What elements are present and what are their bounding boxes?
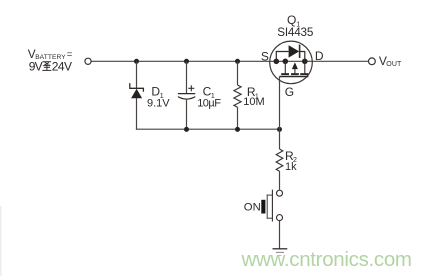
wire D1 branch lower xyxy=(136,98,138,130)
glyph 至 (to) xyxy=(42,62,51,71)
label R2 xyxy=(285,149,297,164)
svg-text:ON: ON xyxy=(244,201,261,213)
svg-text:24V: 24V xyxy=(52,60,72,74)
resistor R1 xyxy=(234,85,241,107)
terminal battery input xyxy=(85,58,91,64)
switch top contact xyxy=(277,190,283,196)
transistor Q1 body diode xyxy=(276,45,305,62)
transistor Q1 channel bars xyxy=(281,73,308,75)
ground xyxy=(273,249,288,256)
node top D1 xyxy=(134,59,139,64)
wire switch to ground xyxy=(279,221,281,249)
svg-text:9V: 9V xyxy=(29,60,43,74)
svg-text:Q: Q xyxy=(287,13,296,27)
switch button cap xyxy=(261,200,265,214)
svg-text:9.1V: 9.1V xyxy=(147,97,170,109)
label Vout xyxy=(379,54,402,68)
node top R1 xyxy=(235,59,240,64)
switch contact bar xyxy=(271,190,273,222)
scan artifact left edge xyxy=(0,206,2,276)
switch actuator top link xyxy=(267,194,273,196)
transistor Q1 source node xyxy=(274,59,280,65)
transistor Q1 body arrow xyxy=(292,62,298,69)
wire top rail xyxy=(91,60,368,62)
watermark www.cntronics.com xyxy=(241,248,413,271)
svg-text:G: G xyxy=(285,85,294,99)
wire gate down xyxy=(279,76,281,149)
transistor Q1 body node xyxy=(283,59,289,65)
label 9V to 24V xyxy=(29,60,72,74)
wire R1 branch lower xyxy=(237,107,239,130)
label Q1 xyxy=(287,13,300,28)
capacitor C1 plus sign xyxy=(188,85,194,91)
svg-text:1k: 1k xyxy=(285,161,297,173)
svg-text:SI4435: SI4435 xyxy=(277,26,314,39)
switch actuator bottom link xyxy=(267,217,273,219)
transistor Q1 gate plate xyxy=(280,76,309,78)
node bottom gate junction xyxy=(277,127,282,132)
terminal Vout xyxy=(369,58,376,65)
svg-text:10µF: 10µF xyxy=(197,97,221,109)
wire R2 to switch xyxy=(279,171,281,190)
svg-text:S: S xyxy=(261,50,269,64)
transistor Q1 body circle xyxy=(270,41,313,84)
transistor Q1 channel contacts xyxy=(285,61,305,73)
node top C1 xyxy=(184,59,189,64)
svg-text:10M: 10M xyxy=(243,96,264,108)
transistor Q1 drain node xyxy=(302,59,308,65)
node bottom C1 xyxy=(184,127,189,132)
wire C1 branch upper xyxy=(186,61,188,93)
node bottom R1 xyxy=(235,127,240,132)
label D1 xyxy=(151,85,163,100)
resistor R2 xyxy=(276,149,283,171)
wire D1 branch upper xyxy=(136,61,138,88)
zener diode D1 xyxy=(130,83,144,98)
wire bottom rail xyxy=(136,128,280,130)
capacitor C1 plates xyxy=(178,94,195,100)
wire C1 branch lower xyxy=(186,100,188,130)
svg-text:=: = xyxy=(67,49,73,60)
switch actuator plate xyxy=(266,195,268,219)
svg-text:OUT: OUT xyxy=(386,61,402,68)
label C1 xyxy=(203,85,215,100)
svg-text:www.cntronics.com: www.cntronics.com xyxy=(241,248,413,271)
svg-text:D: D xyxy=(315,49,324,63)
label VBATTERY xyxy=(28,47,73,61)
label R1 xyxy=(247,85,259,100)
switch bottom contact xyxy=(277,215,283,221)
wire R1 branch upper xyxy=(237,61,239,85)
